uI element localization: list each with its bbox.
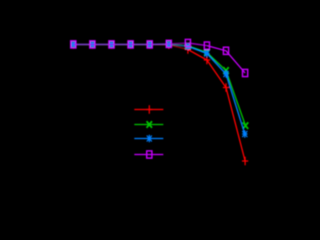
green series G markers (cross) xyxy=(71,41,249,129)
blue series B line flat part xyxy=(73,44,188,46)
legend entry 3: blue sample line with asterisk xyxy=(134,135,163,142)
legend entry 4: magenta sample line with open square xyxy=(134,151,163,158)
green series G line drop part xyxy=(188,46,246,126)
magenta series M line flat part xyxy=(73,43,188,44)
legend entry 2: green sample line with cross xyxy=(134,121,163,128)
magenta series M markers (open square) xyxy=(71,39,248,76)
legend entry 1: red sample line with plus xyxy=(134,105,163,113)
magenta series M line drop part xyxy=(207,46,245,73)
blue series B markers (asterisk) xyxy=(71,41,248,138)
green series G line flat part xyxy=(73,44,188,46)
blue series B line drop part xyxy=(188,46,245,134)
red series R line drop part xyxy=(188,50,245,162)
red series R line flat part xyxy=(73,45,188,50)
red series R markers (plus) xyxy=(70,40,248,165)
magenta series M line mid part xyxy=(188,43,207,46)
